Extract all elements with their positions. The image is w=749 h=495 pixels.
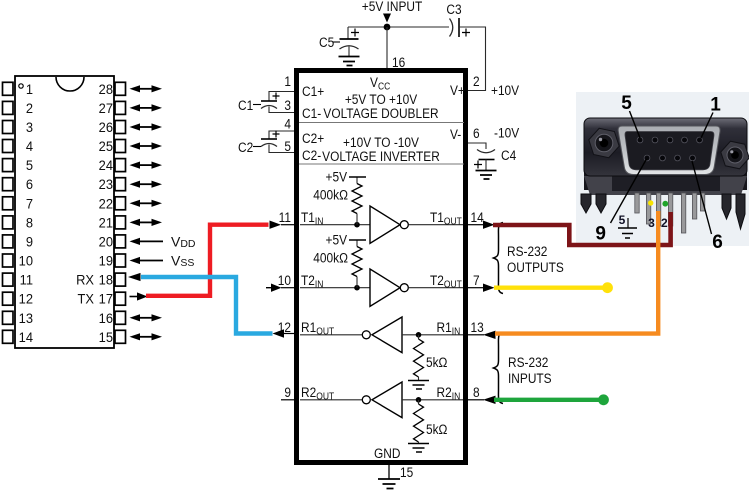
protection resistor 5k (R1) (414, 335, 424, 381)
pin label C2+ (302, 130, 324, 146)
DIP pin 20 pad (115, 235, 126, 248)
svg-text:21: 21 (99, 215, 113, 231)
svg-text:8: 8 (473, 384, 480, 400)
svg-text:2: 2 (473, 73, 480, 89)
wire C4 to ground (485, 160, 487, 171)
VSS input arrow at DIP pin 19 (130, 257, 164, 264)
net label VSS (171, 253, 194, 270)
DIP pin 9 number (26, 234, 33, 250)
left board lock pegs (581, 194, 606, 213)
svg-text:TX: TX (78, 291, 94, 307)
DIP pin 10 number (19, 253, 33, 269)
svg-text:C5: C5 (319, 34, 334, 50)
label VCC (370, 74, 390, 92)
DIP pin 2 number (26, 100, 33, 116)
DIP pin 7 pad (3, 197, 14, 210)
svg-text:5: 5 (26, 158, 33, 174)
DIP pin 4 number (26, 139, 34, 155)
DB9 socket hole pin 5 (637, 137, 643, 143)
arrow out of R1OUT pin 12 (273, 329, 285, 337)
svg-text:14: 14 (471, 209, 484, 225)
label C4 (501, 147, 516, 163)
inverter receiver R2 (362, 382, 402, 418)
svg-text:VOLTAGE INVERTER: VOLTAGE INVERTER (322, 148, 440, 164)
pin number 2 (473, 73, 480, 89)
maroon wire T1OUT to DB9 pin 2 (493, 212, 671, 245)
pin 9 stub wire (281, 399, 294, 401)
junction node R2 (416, 397, 422, 403)
svg-text:400kΩ: 400kΩ (313, 187, 348, 203)
junction node T2 (354, 285, 360, 291)
svg-text:-10V: -10V (494, 125, 519, 141)
DIP pin 3 number (26, 120, 33, 136)
svg-text:+5V: +5V (326, 169, 348, 185)
wire R1IN to inverter (402, 334, 463, 336)
capacitor C4 (474, 150, 495, 169)
DIP pin 16 number (99, 310, 113, 326)
DIP pin 19 pad (115, 254, 126, 267)
DIP pin 15 number (99, 329, 113, 345)
value label 400kOhm (T2) (313, 250, 348, 266)
DIP pin 8 pad (3, 216, 14, 229)
DIP pin 5 number (26, 158, 33, 174)
blue wire R1OUT to RX (141, 277, 273, 334)
pin number 14 (471, 209, 484, 225)
svg-text:RX: RX (76, 272, 94, 288)
svg-text:7: 7 (26, 196, 33, 212)
label +5V INPUT (362, 0, 423, 14)
pin label V- (450, 126, 461, 142)
svg-text:5kΩ: 5kΩ (426, 354, 448, 370)
pin number 9 (284, 384, 291, 400)
DIP pin 11 number (20, 272, 33, 288)
pin number 5 (284, 138, 291, 154)
value label 5kOhm (R2) (426, 421, 448, 437)
svg-text:C2: C2 (238, 139, 253, 155)
DB9 solder pin (668, 193, 672, 226)
bidirectional bus arrow at DIP pin 15 (130, 333, 163, 340)
DB9 socket hole pin 4 (652, 137, 658, 143)
output arrow T1OUT (483, 221, 495, 229)
label C1 (238, 97, 261, 113)
DIP pin 14 number (19, 329, 34, 345)
pin number 13 (471, 319, 484, 335)
capacitor C2 (261, 131, 280, 147)
DIP pin 13 number (19, 310, 33, 326)
MAX232 body outline (297, 71, 466, 463)
svg-text:28: 28 (99, 81, 113, 97)
net label VDD (171, 233, 196, 250)
DIP pin 24 number (99, 158, 114, 174)
wire T2IN to inverter (300, 287, 370, 289)
pin number 4 (284, 116, 291, 132)
svg-text:16: 16 (392, 54, 405, 70)
DIP pin 6 pad (3, 178, 14, 191)
svg-text:4: 4 (26, 139, 34, 155)
DIP pin 15 pad (115, 330, 126, 343)
inverter driver T1 (370, 206, 408, 243)
junction node R1 (416, 332, 422, 338)
svg-text:C3: C3 (446, 1, 461, 17)
pin 12 stub wire (283, 333, 294, 335)
DIP pin 10 pad (3, 254, 14, 267)
bidirectional bus arrow at DIP pin 16 (130, 314, 163, 321)
pin 11 stub wire (281, 224, 294, 226)
svg-text:11: 11 (279, 209, 291, 225)
DIP pin 17 pad (115, 292, 126, 305)
callout label 9 (DB9 pin 9) (595, 159, 646, 245)
svg-text:1: 1 (710, 95, 721, 116)
pin number 8 (473, 384, 480, 400)
green marker dot on DB9 pin 2 (662, 201, 668, 207)
D-sub recess (625, 132, 714, 170)
left board lock base (584, 176, 747, 195)
DB9 socket hole pin 7 (675, 155, 681, 161)
label C5 (319, 34, 340, 50)
label C2 (238, 139, 261, 155)
pin number 12 (278, 319, 291, 335)
right jack screw (721, 141, 749, 169)
DIP pin 9 pad (3, 235, 14, 248)
label RS-232 OUTPUTS (507, 243, 564, 275)
DB9 socket hole pin 2 (682, 137, 688, 143)
pin 1 stub wire (269, 92, 294, 102)
svg-text:9: 9 (26, 234, 33, 250)
pin 14 stub wire (468, 224, 483, 226)
bidirectional bus arrow at DIP pin 22 (130, 200, 163, 207)
net label -10V (494, 125, 519, 141)
svg-text:14: 14 (19, 329, 34, 345)
pin 13 stub wire (468, 334, 484, 336)
pin number 11 (279, 209, 291, 225)
bidirectional bus arrow at DIP pin 23 (130, 181, 163, 188)
DIP pin 25 pad (115, 140, 126, 153)
DIP pin 21 number (99, 215, 113, 231)
pull-up resistor 400k to +5V (T1) (349, 177, 366, 225)
wire T2 inverter to T2OUT (409, 287, 464, 289)
pin label C1- (302, 105, 321, 121)
DB9 solder pin (700, 193, 704, 211)
pin number 6 (473, 125, 480, 141)
capacitor C1 (261, 93, 280, 109)
protection resistor 5k (R2) (414, 400, 424, 444)
svg-text:6: 6 (26, 177, 33, 193)
svg-text:GND: GND (374, 445, 400, 461)
pin 4 stub wire (269, 131, 294, 139)
DIP pin 1 number (26, 81, 33, 97)
svg-text:23: 23 (99, 177, 113, 193)
svg-text:17: 17 (99, 291, 113, 307)
DIP pin 6 number (26, 177, 33, 193)
svg-text:INPUTS: INPUTS (508, 370, 552, 386)
value label 400kOhm (T1) (313, 187, 348, 203)
pin label C2- (302, 147, 321, 163)
section divider line (299, 163, 464, 165)
label 5 with ground (DB9 pin 5 lead) (618, 213, 637, 238)
label 3 (DB9 pin 3 lead) (648, 216, 655, 230)
pin label R1OUT (301, 319, 334, 337)
DB9 mounting flange (584, 118, 747, 176)
DIP pin 5 pad (3, 159, 14, 172)
DB9 socket hole pin 8 (660, 155, 666, 161)
pin number 16 (392, 54, 405, 70)
svg-text:15: 15 (99, 329, 113, 345)
callout label 6 (DB9 pin 6) (692, 161, 723, 253)
DIP pin 17 number (99, 291, 113, 307)
svg-text:C1+: C1+ (302, 83, 324, 99)
brace RS-232 inputs (494, 333, 504, 404)
svg-text:V+: V+ (450, 82, 465, 98)
svg-text:V-: V- (450, 126, 461, 142)
input arrow into T2IN pin 10 (266, 284, 294, 292)
arrow out of TX pin 17 (130, 292, 148, 300)
orange wire DB9 pin 3 to R1IN (495, 211, 658, 334)
wire C3 to V+ pin 2 (459, 27, 486, 91)
pin label V+ (450, 82, 465, 98)
bidirectional bus arrow at DIP pin 28 (130, 85, 163, 92)
label +10V TO -10V (343, 134, 419, 150)
svg-text:5: 5 (619, 213, 626, 227)
green wire to R2IN (494, 394, 609, 405)
label VOLTAGE DOUBLER (323, 105, 438, 121)
photo background (576, 92, 749, 246)
junction node on +5V rail (384, 24, 391, 31)
DB9 solder pin (692, 193, 696, 219)
right board lock pegs (722, 194, 745, 229)
svg-text:C4: C4 (501, 147, 516, 163)
pin label T1IN (301, 209, 323, 227)
section divider line (299, 122, 464, 124)
svg-text:24: 24 (99, 158, 114, 174)
pin label C1+ (302, 83, 324, 99)
DIP pin 2 pad (3, 101, 14, 114)
DIP pin 27 pad (115, 101, 126, 114)
label VOLTAGE INVERTER (322, 148, 440, 164)
bidirectional bus arrow at DIP pin 24 (130, 162, 163, 169)
pin number 1 (284, 73, 291, 89)
DIP pin 26 pad (115, 121, 126, 134)
svg-text:VOLTAGE DOUBLER: VOLTAGE DOUBLER (323, 105, 438, 121)
label RS-232 INPUTS (508, 354, 552, 386)
DIP pin 28 pad (115, 82, 126, 95)
ground symbol below R1 resistor (408, 381, 429, 390)
svg-text:3: 3 (284, 97, 291, 113)
DIP pin 22 number (99, 196, 113, 212)
DIP body (15, 76, 114, 348)
svg-text:5kΩ: 5kΩ (426, 421, 448, 437)
svg-text:12: 12 (19, 291, 33, 307)
DIP pin 1 pad (3, 82, 14, 95)
wire to pin 16 (386, 27, 388, 68)
DB9 lower shell band (584, 170, 747, 190)
svg-text:13: 13 (19, 310, 33, 326)
svg-text:3: 3 (26, 120, 33, 136)
DIP pin 14 pad (3, 330, 14, 343)
inverter receiver R1 (362, 317, 402, 353)
yellow wire from T2OUT (494, 282, 613, 293)
DB9 solder pin (681, 193, 685, 233)
label +5V (T1 pull-up) (326, 169, 348, 185)
DB9 solder pin (656, 193, 660, 226)
svg-text:7: 7 (473, 272, 480, 288)
pin 5 stub wire (269, 145, 294, 153)
DIP pin 16 pad (115, 311, 126, 324)
label C3 (446, 1, 461, 17)
bidirectional bus arrow at DIP pin 25 (130, 142, 163, 149)
svg-text:18: 18 (99, 272, 113, 288)
svg-text:6: 6 (473, 125, 480, 141)
svg-text:C1: C1 (238, 97, 253, 113)
svg-text:27: 27 (99, 100, 113, 116)
bidirectional bus arrow at DIP pin 26 (130, 123, 163, 130)
capacitor C5 (340, 29, 360, 50)
pin label R1IN (437, 319, 461, 337)
svg-text:OUTPUTS: OUTPUTS (507, 259, 564, 275)
wire R2OUT to inverter bubble (300, 399, 362, 401)
left jack screw (589, 128, 619, 157)
arrow into RX pin 18 (128, 273, 141, 281)
DIP pin 18 pad (115, 273, 126, 286)
value label 5kOhm (R1) (426, 354, 448, 370)
svg-text:RS-232: RS-232 (507, 243, 547, 259)
DB9 socket hole pin 9 (644, 155, 650, 161)
DIP pin 24 pad (115, 159, 126, 172)
ground symbol below R2 resistor (408, 444, 429, 453)
pin label T2OUT (430, 272, 462, 290)
DIP pin 21 pad (115, 216, 126, 229)
svg-text:9: 9 (595, 224, 606, 245)
DIP pin 28 number (99, 81, 113, 97)
DIP pin 27 number (99, 100, 113, 116)
svg-text:20: 20 (99, 234, 113, 250)
svg-text:C2+: C2+ (302, 130, 324, 146)
svg-text:6: 6 (712, 232, 723, 253)
svg-text:10: 10 (278, 272, 291, 288)
DIP pin 23 number (99, 177, 113, 193)
pin number 7 (473, 272, 480, 288)
DIP pin 26 number (99, 120, 113, 136)
svg-text:8: 8 (26, 215, 33, 231)
wire to C5 (347, 27, 349, 39)
svg-text:22: 22 (99, 196, 113, 212)
ground symbol at pin 15 (378, 479, 400, 489)
label TX at pin 17 (78, 291, 94, 307)
label 2 (DB9 pin 2 lead) (661, 216, 668, 230)
svg-text:2: 2 (26, 100, 33, 116)
DB9 socket hole pin 3 (667, 137, 673, 143)
pin label R2IN (437, 384, 461, 402)
pin 8 stub wire (468, 399, 484, 401)
svg-text:1: 1 (26, 81, 33, 97)
wire +5V rail (348, 26, 449, 28)
arrow into T1IN pin 11 (270, 221, 282, 229)
bidirectional bus arrow at DIP pin 27 (130, 104, 163, 111)
DIP pin 22 pad (115, 197, 126, 210)
DIP pin 11 pad (3, 273, 14, 286)
svg-text:+5V INPUT: +5V INPUT (362, 0, 423, 14)
svg-text:C2-: C2- (302, 147, 321, 163)
junction node T1 (354, 222, 360, 228)
DIP pin 13 pad (3, 311, 14, 324)
svg-text:400kΩ: 400kΩ (313, 250, 348, 266)
label RX at pin 18 (76, 272, 94, 288)
DIP pin 3 pad (3, 121, 14, 134)
svg-text:RS-232: RS-232 (508, 354, 548, 370)
DB9 solder pin (635, 193, 639, 213)
svg-text:25: 25 (99, 139, 113, 155)
+5V input arrow (383, 14, 391, 23)
svg-text:16: 16 (99, 310, 113, 326)
svg-text:9: 9 (284, 384, 291, 400)
pin label T2IN (301, 272, 323, 290)
DIP pin 20 number (99, 234, 113, 250)
red wire TX to T1IN (146, 225, 269, 296)
wire T1IN to inverter (300, 224, 370, 226)
input arrow R1IN (483, 331, 496, 339)
pin 3 stub wire (269, 107, 294, 113)
input arrow R2IN (483, 396, 496, 404)
yellow marker dot on DB9 pin 3 (648, 200, 653, 205)
pin 7 stub wire (468, 287, 483, 289)
DIP pin-1 notch (56, 77, 84, 91)
pin 15 ground wire (388, 465, 390, 479)
svg-text:26: 26 (99, 120, 113, 136)
output arrow T2OUT (483, 284, 495, 292)
capacitor C3 (450, 18, 471, 37)
svg-text:C1-: C1- (302, 105, 321, 121)
net label +10V (491, 82, 519, 98)
pin number 3 (284, 97, 291, 113)
svg-text:10: 10 (19, 253, 33, 269)
DB9 solder pin (646, 193, 650, 224)
inverter driver T2 (370, 269, 408, 306)
label GND (374, 445, 400, 461)
svg-text:1: 1 (284, 73, 291, 89)
DIP pin 19 number (99, 253, 113, 269)
VDD input arrow at DIP pin 20 (130, 238, 164, 245)
callout label 5 (DB9 pin 5) (621, 93, 640, 138)
callout label 1 (DB9 pin 1) (701, 95, 721, 139)
brace RS-232 outputs (494, 223, 504, 294)
DIP pin 18 number (99, 272, 113, 288)
DIP pin 12 pad (3, 292, 14, 305)
ground symbol below C5 (339, 57, 360, 66)
pin label R2OUT (301, 384, 334, 402)
svg-text:4: 4 (284, 116, 291, 132)
pin 6 stub wire (468, 143, 486, 149)
svg-text:3: 3 (648, 216, 655, 230)
DIP pin 4 pad (3, 140, 14, 153)
svg-text:2: 2 (661, 216, 668, 230)
svg-text:+10V: +10V (491, 82, 519, 98)
svg-text:19: 19 (99, 253, 113, 269)
svg-text:13: 13 (471, 319, 484, 335)
wire R2IN to inverter (402, 399, 463, 401)
DIP pin 8 number (26, 215, 33, 231)
DIP pin 7 number (26, 196, 33, 212)
svg-text:11: 11 (20, 272, 33, 288)
svg-text:15: 15 (400, 464, 413, 480)
DIP pin 23 pad (115, 178, 126, 191)
svg-text:5: 5 (621, 93, 632, 114)
DIP pin 25 number (99, 139, 113, 155)
wire R1OUT to inverter bubble (300, 334, 362, 336)
ground symbol below C4 (476, 171, 497, 180)
pull-up resistor 400k to +5V (T2) (349, 240, 366, 288)
DIP pin 12 number (19, 291, 33, 307)
pin label T1OUT (430, 209, 462, 227)
bidirectional bus arrow at DIP pin 21 (130, 219, 163, 226)
